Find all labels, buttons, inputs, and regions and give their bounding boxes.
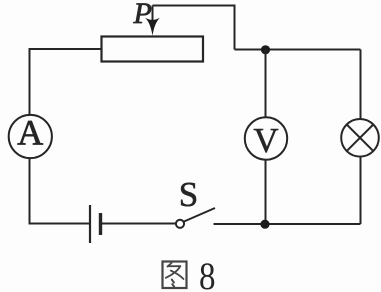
resistor R (rheostat body)	[102, 37, 204, 62]
lamp L	[341, 119, 379, 157]
wire voltmeter top lead	[265, 50, 267, 119]
wire top (arrow top to right drop)	[153, 6, 235, 50]
svg-text:S: S	[179, 175, 198, 214]
wire right vertical top (to lamp)	[360, 50, 362, 120]
svg-text:P: P	[133, 0, 152, 30]
svg-text:8: 8	[199, 255, 216, 292]
wire top-left L (rheostat left to ammeter top)	[30, 49, 102, 115]
wire upper-right horizontal	[235, 49, 361, 51]
wire bottom-left (battery to ammeter bottom)	[30, 159, 90, 224]
caption: character 图 (drawn)	[163, 262, 187, 289]
node junction bottom	[260, 220, 269, 229]
wiper arrow	[145, 6, 160, 36]
voltmeter V	[245, 117, 287, 160]
svg-text:A: A	[17, 113, 43, 153]
wire bottom right (switch to right corner)	[214, 223, 361, 225]
node junction top	[261, 45, 270, 54]
switch S blade	[184, 208, 215, 222]
battery cell: short negative plate	[99, 213, 102, 235]
wire battery to switch	[102, 223, 176, 225]
battery cell: long positive plate	[89, 205, 91, 243]
switch S pivot	[176, 220, 184, 228]
ammeter A	[9, 113, 52, 159]
svg-text:V: V	[253, 121, 278, 160]
wire voltmeter bottom lead	[265, 160, 267, 225]
wire lamp bottom lead	[360, 157, 362, 225]
